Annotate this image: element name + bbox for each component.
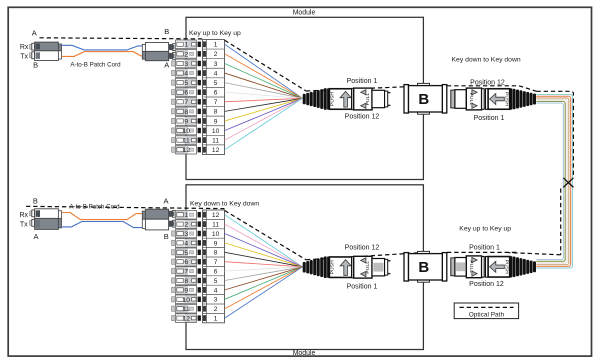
LC adapter 4 (176, 69, 197, 78)
LC port plug 7 (172, 99, 176, 104)
svg-text:2: 2 (184, 222, 188, 229)
svg-text:Rx: Rx (20, 44, 29, 51)
svg-text:4: 4 (214, 70, 218, 77)
internal connector 1 (198, 42, 201, 47)
LC adapter 5 (176, 78, 197, 87)
svg-text:7: 7 (184, 269, 188, 276)
LC adapter 1 (176, 40, 197, 49)
svg-text:Rx: Rx (19, 212, 28, 219)
svg-text:7: 7 (214, 259, 218, 266)
stripe cell 5 (203, 249, 206, 255)
wire fiber 4 (225, 267, 303, 290)
MPO connector U2 boot (510, 88, 536, 109)
optical path dashed diagonal (bottom module) (225, 211, 306, 260)
optical path dashed line (bottom cord) (26, 206, 225, 208)
svg-text:12: 12 (183, 316, 191, 323)
svg-text:Module: Module (293, 350, 316, 357)
stripe cell 5 (203, 80, 206, 86)
internal connector 9 (198, 287, 201, 292)
MPO connector U2 ferrule (451, 90, 467, 109)
LC port plug 6 (172, 259, 176, 264)
svg-text:12: 12 (212, 147, 220, 154)
stripe cell 4 (203, 240, 206, 246)
LC port plug 11 (172, 138, 176, 143)
module box top (186, 17, 423, 179)
svg-text:12: 12 (183, 147, 191, 154)
svg-text:1: 1 (214, 42, 218, 49)
svg-text:B: B (33, 197, 38, 206)
svg-text:9: 9 (214, 118, 218, 125)
svg-text:Position 1: Position 1 (347, 78, 378, 85)
svg-text:PULL: PULL (365, 261, 371, 274)
stripe cell 3 (203, 231, 206, 237)
internal connector 4 (198, 70, 201, 75)
svg-text:9: 9 (184, 118, 188, 125)
svg-text:Position 1: Position 1 (347, 284, 378, 291)
stripe cell 11 (203, 137, 206, 143)
LC port plug 3 (172, 231, 176, 236)
LC adapter 1 (176, 210, 197, 219)
svg-text:PUSH: PUSH (330, 92, 336, 106)
svg-text:5: 5 (184, 80, 188, 87)
svg-text:Key down to Key down: Key down to Key down (190, 200, 259, 207)
stripe cell 4 (203, 70, 206, 76)
LC port plug 10 (172, 297, 176, 302)
svg-text:A: A (163, 197, 168, 206)
wire fiber 7 (225, 98, 303, 101)
wire fiber 12 (225, 215, 303, 267)
stripe cell 1 (203, 212, 206, 218)
svg-text:10: 10 (183, 297, 191, 304)
wire fiber 6 (225, 267, 303, 271)
svg-text:Position 1: Position 1 (469, 245, 500, 252)
MPO connector U3 pull sleeve (352, 256, 372, 278)
internal connector 6 (198, 90, 201, 95)
svg-text:1: 1 (184, 42, 188, 49)
LC adapter 8 (176, 276, 197, 285)
optical path dashes right of top adapter (447, 85, 519, 87)
LC port plug 7 (172, 269, 176, 274)
internal connector 11 (198, 306, 201, 311)
wire fiber 8 (225, 252, 303, 266)
svg-text:4: 4 (184, 70, 188, 77)
LC adapter 10 (176, 295, 197, 304)
patch cord connector B-end (top) (142, 43, 176, 61)
svg-text:2: 2 (214, 51, 218, 58)
MPO connector U3 push housing (329, 257, 351, 278)
module box bottom (186, 185, 423, 350)
wire fiber 12 (225, 98, 303, 149)
svg-text:Key up to Key up: Key up to Key up (189, 30, 241, 37)
svg-text:6: 6 (214, 268, 218, 275)
fiber position table (203, 210, 225, 323)
internal connector 4 (198, 240, 201, 245)
svg-text:PULL: PULL (365, 92, 371, 105)
LC port plug 12 (172, 147, 176, 152)
LC adapter 3 (176, 229, 197, 238)
wire fiber 10 (225, 98, 303, 130)
LC port plug 3 (172, 61, 176, 66)
LC adapter 7 (176, 97, 197, 106)
svg-text:11: 11 (212, 221, 219, 228)
wire fiber 6 (225, 92, 303, 98)
LC adapter 7 (176, 267, 197, 276)
wire fiber 3 (225, 267, 303, 300)
internal connector 8 (198, 109, 201, 114)
wire fiber 5 (225, 83, 303, 99)
MPO adapter B bottom (404, 251, 447, 282)
stripe cell 2 (203, 221, 206, 227)
svg-text:1: 1 (184, 212, 188, 219)
internal connector 6 (198, 259, 201, 264)
svg-text:Tx: Tx (20, 221, 28, 228)
svg-text:B: B (33, 61, 38, 70)
LC adapter 2 (176, 50, 197, 59)
LC adapter 12 (176, 145, 197, 154)
stripe cell 10 (203, 296, 206, 302)
LC port plug 8 (172, 109, 176, 114)
internal connector 2 (198, 221, 201, 226)
svg-text:B: B (418, 259, 429, 276)
LC adapter 10 (176, 126, 197, 135)
stripe cell 3 (203, 61, 206, 67)
LC port plug 12 (172, 316, 176, 321)
wire fiber 10 (225, 234, 303, 267)
internal connector 3 (198, 231, 201, 236)
MPO connector U3 ferrule (372, 259, 390, 276)
svg-text:8: 8 (214, 109, 218, 116)
wire fiber 11 (225, 224, 303, 267)
optical path dashed line A to module (top) (40, 38, 204, 39)
svg-text:A: A (32, 28, 37, 37)
MPO connector U4 coupling ring (482, 257, 489, 278)
internal connector 12 (198, 315, 201, 320)
patch cord connector B-end (bottom) (142, 209, 176, 230)
LC adapter 3 (176, 59, 197, 68)
svg-text:6: 6 (214, 90, 218, 97)
svg-text:5: 5 (184, 250, 188, 257)
trunk cable ribbon (536, 95, 572, 269)
svg-text:8: 8 (184, 109, 188, 116)
LC adapter 4 (176, 239, 197, 248)
LC port plug 4 (172, 70, 176, 75)
stripe cell 11 (203, 306, 206, 312)
svg-text:10: 10 (212, 128, 220, 135)
svg-text:Position 12: Position 12 (469, 281, 504, 288)
MPO connector U4 ferrule (451, 258, 467, 277)
optical path dashed diagonal (top module) (225, 40, 306, 91)
legend optical path (454, 303, 518, 319)
stripe cell 8 (203, 278, 206, 284)
svg-text:4: 4 (214, 287, 218, 294)
wire fiber 2 (225, 54, 303, 98)
stripe cell 7 (203, 268, 206, 274)
wire fiber 1 (225, 267, 303, 318)
optical path dashes to bottom right MPO (509, 253, 561, 255)
crossover X mark (563, 178, 573, 188)
svg-text:Position 12: Position 12 (345, 244, 380, 251)
LC port plug 6 (172, 90, 176, 95)
stripe cell 9 (203, 118, 206, 124)
svg-text:3: 3 (184, 61, 188, 68)
internal connector 3 (198, 61, 201, 66)
internal connector 12 (198, 147, 201, 152)
svg-text:9: 9 (214, 240, 218, 247)
svg-text:B: B (418, 91, 429, 108)
svg-text:10: 10 (212, 231, 220, 238)
svg-text:A-to-B Patch Cord: A-to-B Patch Cord (69, 203, 120, 210)
wire blue fiber bottom cord (62, 222, 143, 228)
wire orange fiber top cord (62, 52, 143, 57)
svg-text:5: 5 (214, 278, 218, 285)
svg-text:6: 6 (184, 90, 188, 97)
stripe cell 8 (203, 108, 206, 114)
wire fiber 3 (225, 63, 303, 98)
LC port plug 8 (172, 278, 176, 283)
MPO connector U3 boot (303, 256, 330, 278)
LC adapter 2 (176, 220, 197, 229)
svg-text:11: 11 (183, 138, 190, 145)
LC port plug 9 (172, 118, 176, 123)
stripe cell 9 (203, 287, 206, 293)
wire fiber 5 (225, 267, 303, 281)
internal connector 1 (198, 212, 201, 217)
svg-text:9: 9 (184, 287, 188, 294)
MPO connector U4 boot (510, 256, 536, 277)
LC port plug 11 (172, 306, 176, 311)
LC adapter 6 (176, 257, 197, 266)
svg-text:3: 3 (214, 297, 218, 304)
svg-text:PUSH: PUSH (330, 260, 336, 274)
svg-text:3: 3 (184, 231, 188, 238)
MPO connector U1 boot (303, 88, 330, 110)
svg-text:4: 4 (184, 240, 188, 247)
wire fiber 9 (225, 243, 303, 267)
LC adapter 12 (176, 314, 197, 323)
svg-text:A: A (164, 60, 169, 69)
svg-text:3: 3 (214, 61, 218, 68)
MPO connector U4 push housing (488, 257, 510, 278)
svg-text:7: 7 (214, 99, 218, 106)
LC port plug 9 (172, 287, 176, 292)
LC port plug 10 (172, 128, 176, 133)
svg-text:2: 2 (214, 306, 218, 313)
patch cord connector A-end (bottom) (30, 209, 62, 230)
MPO connector U2 pull sleeve (466, 88, 481, 110)
LC adapter 9 (176, 286, 197, 295)
wire orange fiber bottom cord (62, 213, 143, 220)
internal connector 10 (198, 297, 201, 302)
patch cord connector A-end (top) (30, 42, 62, 60)
svg-text:10: 10 (183, 128, 191, 135)
optical path dashes right of bottom adapter (447, 251, 519, 253)
svg-text:8: 8 (184, 278, 188, 285)
wire fiber 1 (225, 44, 303, 98)
MPO adapter B top (404, 83, 447, 114)
LC port plug 4 (172, 240, 176, 245)
LC port plug 5 (172, 80, 176, 85)
wire fiber 7 (225, 262, 303, 267)
internal connector 5 (198, 250, 201, 255)
LC adapter 6 (176, 88, 197, 97)
wire fiber 4 (225, 73, 303, 98)
stripe cell 12 (203, 315, 206, 321)
LC adapter 11 (176, 136, 197, 145)
stripe cell 6 (203, 259, 206, 265)
internal connector 11 (198, 137, 201, 142)
LC port plug 5 (172, 250, 176, 255)
wire blue fiber top cord (62, 45, 143, 50)
wire fiber 9 (225, 98, 303, 121)
svg-text:8: 8 (214, 250, 218, 257)
svg-text:11: 11 (212, 137, 219, 144)
LC adapter 9 (176, 117, 197, 126)
internal connector 5 (198, 80, 201, 85)
svg-text:12: 12 (212, 212, 220, 219)
svg-text:Key up to Key up: Key up to Key up (459, 225, 511, 232)
MPO connector U2 coupling ring (482, 89, 489, 110)
stripe cell 10 (203, 128, 206, 134)
internal connector 10 (198, 128, 201, 133)
MPO connector U4 pull sleeve (466, 256, 481, 278)
svg-text:6: 6 (184, 259, 188, 266)
svg-text:Position 12: Position 12 (470, 80, 505, 87)
svg-text:Position 1: Position 1 (474, 115, 505, 122)
MPO connector U2 push housing (488, 89, 510, 110)
MPO connector U1 ferrule (372, 90, 390, 107)
stripe cell 6 (203, 89, 206, 95)
optical path dashes along ribbon top and down right side (537, 91, 574, 175)
LC adapter 8 (176, 107, 197, 116)
wire fiber 11 (225, 98, 303, 140)
internal connector 7 (198, 268, 201, 273)
internal connector 9 (198, 118, 201, 123)
svg-text:A: A (33, 232, 38, 241)
internal connector 7 (198, 99, 201, 104)
svg-text:Position 12: Position 12 (345, 114, 380, 121)
fiber position table (203, 40, 225, 155)
internal connector 2 (198, 51, 201, 56)
svg-text:2: 2 (184, 51, 188, 58)
svg-text:Tx: Tx (20, 54, 28, 61)
svg-text:11: 11 (183, 306, 190, 313)
svg-text:5: 5 (214, 80, 218, 87)
svg-text:1: 1 (214, 315, 218, 322)
stripe cell 12 (203, 147, 206, 153)
stripe cell 1 (203, 41, 206, 47)
svg-text:Module: Module (293, 10, 316, 17)
svg-text:A-to-B Patch Cord: A-to-B Patch Cord (70, 61, 121, 68)
LC adapter 11 (176, 304, 197, 313)
wire fiber 8 (225, 98, 303, 111)
svg-text:7: 7 (184, 99, 188, 106)
stripe cell 2 (203, 51, 206, 57)
MPO connector U1 pull sleeve (352, 88, 372, 110)
MPO connector U1 push housing (329, 89, 351, 110)
internal connector 8 (198, 278, 201, 283)
svg-text:Key down to Key down: Key down to Key down (452, 57, 521, 64)
svg-text:Optical Path: Optical Path (469, 311, 505, 318)
wire fiber 2 (225, 267, 303, 309)
svg-text:B: B (164, 232, 169, 241)
LC adapter 5 (176, 248, 197, 257)
optical path dashed vertical left (560, 189, 562, 255)
svg-text:B: B (164, 27, 169, 36)
stripe cell 7 (203, 99, 206, 105)
